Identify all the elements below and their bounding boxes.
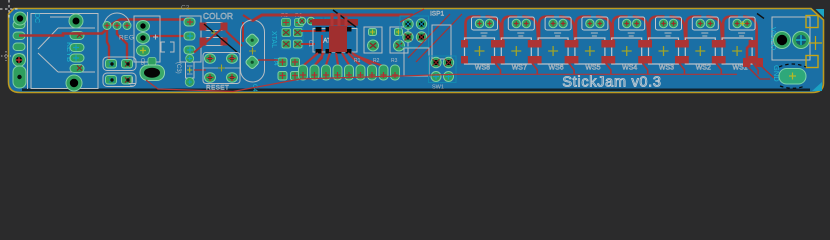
switch SW1 pad 1 — [431, 57, 441, 67]
regulator pad 2 — [113, 22, 121, 30]
svg-text:R1: R1 — [354, 58, 361, 64]
RESET pad A — [205, 54, 216, 64]
ISP1 pad 3 — [403, 32, 413, 42]
svg-text:R4: R4 — [272, 58, 278, 66]
wire to gnd pad — [747, 66, 770, 79]
regulator pad 1 — [103, 22, 111, 30]
capacitor C1 outline — [364, 27, 382, 53]
switch SW1 pad 3 — [431, 72, 441, 82]
tall stadium pad bottom-left — [13, 66, 26, 88]
dimension cross mid — [809, 36, 822, 50]
svg-text:ISP1: ISP1 — [430, 11, 444, 18]
wire into button — [194, 29, 222, 53]
svg-text:WS6: WS6 — [549, 65, 564, 72]
USB pin pad 4 — [70, 65, 84, 73]
svg-text:C2: C2 — [181, 5, 190, 12]
crystal pad 2 — [245, 55, 260, 70]
svg-text:SW1: SW1 — [432, 85, 444, 91]
wire WS1 pad down — [747, 44, 751, 58]
LED WS2 — [682, 17, 722, 75]
silscreen diagonal — [204, 24, 238, 53]
origin crosshair — [0, 0, 19, 19]
through-hole pad USB shield top — [69, 14, 83, 28]
resistor R2 — [206, 38, 222, 46]
capacitor C3 holder silkscreen — [134, 16, 160, 62]
wire diagonal across ISP — [400, 9, 424, 22]
switch SW1 pad 2 — [443, 57, 453, 67]
transistor/regulator Q1 silkscreen arc — [104, 13, 130, 26]
S2 pad A — [106, 60, 117, 69]
pour isolation gap bottom — [22, 89, 810, 92]
svg-text:C1: C1 — [307, 40, 313, 47]
X2 pad 3 — [184, 46, 195, 54]
board copper pour (bottom layer blue) — [9, 9, 823, 92]
ground symbol — [129, 77, 136, 86]
X2 pad 2 — [184, 32, 195, 40]
dimension square bottom — [806, 56, 818, 68]
header pad crosses — [300, 72, 398, 78]
USB pin pad 3 — [70, 54, 84, 62]
svg-text:C6: C6 — [139, 58, 145, 65]
USB pin pad 2 — [70, 44, 84, 52]
RCA pad shield — [793, 32, 810, 49]
RESET pad D — [227, 73, 238, 83]
wire regulator output down — [107, 26, 127, 59]
LED WS4 — [608, 17, 648, 75]
wire VBUS from edge pads to regulator — [19, 20, 187, 36]
corner marker bottom-right — [812, 82, 822, 91]
silkscreen slash — [757, 14, 764, 19]
red pad V2 — [756, 58, 764, 67]
corner marker top-right — [816, 9, 825, 18]
C3 pad 1 — [137, 21, 150, 32]
button center mark — [218, 65, 225, 72]
svg-text:DC: DC — [33, 13, 40, 23]
D1 pad bottom — [185, 78, 194, 87]
wire xtal to R4 — [258, 59, 278, 61]
wire thick stub — [312, 19, 358, 26]
net wire bottom thin — [146, 74, 737, 91]
LED WS1 — [719, 17, 759, 75]
via pair top — [298, 17, 306, 25]
LED WS8 — [461, 17, 501, 75]
wire to video pad — [759, 64, 774, 78]
pad column J2 pin 4 — [13, 54, 25, 62]
svg-text:XTAL: XTAL — [270, 31, 277, 48]
resistor R3 pad 2 — [291, 58, 300, 67]
C3 pad 2 — [137, 33, 150, 44]
svg-text:StickJam v0.3: StickJam v0.3 — [562, 75, 661, 91]
connector X5 video outline — [772, 17, 810, 60]
GND stadium pad — [779, 69, 806, 85]
switch SW1 pad 4 — [444, 72, 454, 82]
pad column J2 pin 3 — [13, 43, 25, 51]
connector X2 silkscreen — [180, 16, 201, 62]
power pad with hole — [140, 65, 165, 81]
U1 pins top — [316, 27, 352, 54]
through-hole pad USB shield bottom — [66, 75, 82, 91]
wire from R6 to U1 — [301, 31, 326, 66]
ISP1 pad 1 — [403, 19, 413, 29]
svg-text:WS5: WS5 — [585, 65, 600, 72]
olive mark unit8 — [740, 21, 744, 25]
LED WS3 — [645, 17, 685, 75]
LED WS5 — [571, 17, 611, 75]
component X5 outline — [404, 48, 429, 76]
D1 pad top — [186, 55, 194, 63]
RESET pad C — [205, 73, 216, 83]
wire fan to header — [304, 53, 383, 66]
LED WS6 — [535, 17, 575, 75]
crystal pad 1 — [245, 33, 260, 48]
svg-text:WS4: WS4 — [622, 65, 637, 72]
svg-text:WS7: WS7 — [512, 65, 527, 72]
red pad V1 — [743, 58, 751, 67]
ISP1 pad 4 — [416, 32, 426, 42]
pad column J2 pin 2 — [13, 32, 25, 40]
through-hole pad top-left — [14, 12, 27, 25]
svg-text:WS8: WS8 — [475, 65, 490, 72]
S2 pad B — [122, 60, 133, 69]
resistor R4 pad 2 — [291, 72, 300, 81]
svg-text:(C3): (C3) — [175, 62, 181, 74]
through-hole pad left-mid — [13, 54, 26, 67]
capacitor C2 outline — [390, 27, 408, 53]
switch SW1 outline — [429, 56, 457, 83]
S2 pad D — [122, 76, 133, 85]
crystal center mark — [249, 48, 256, 55]
svg-text:REG: REG — [119, 35, 134, 42]
silkscreen slash over bus — [333, 10, 356, 27]
header JP1 pads — [299, 65, 400, 80]
LED WS7 — [498, 17, 538, 75]
RESET pad B — [227, 54, 238, 64]
wire MCU power verticals — [332, 13, 346, 28]
pad above black pad — [148, 58, 156, 66]
pad column J2 pin 1 — [13, 21, 25, 29]
pushbutton RESET body — [203, 53, 240, 84]
svg-text:R3: R3 — [391, 58, 398, 64]
pushbutton S2 body row1 — [103, 57, 136, 71]
mini origin mark — [1, 51, 11, 61]
svg-text:COLOR: COLOR — [203, 12, 233, 21]
resistor R4 pad 1 — [278, 72, 287, 81]
resistor R6 vertical — [293, 27, 303, 49]
RCA pad center — [774, 32, 791, 49]
S2 pad C — [106, 76, 117, 85]
X2 pad 1 — [184, 18, 195, 26]
ISP1 outline — [400, 16, 429, 47]
olive plus — [211, 30, 217, 36]
connector J1 (USB) silkscreen — [28, 12, 99, 89]
component X4 outline — [432, 25, 451, 59]
IC U1 ATTINY outline — [313, 29, 357, 53]
svg-text:R2: R2 — [373, 58, 380, 64]
pushbutton S2 body row2 — [103, 73, 136, 87]
ISP1 pad 2 — [416, 19, 426, 29]
regulator pad 3 — [123, 22, 131, 30]
crystal Q2 outline — [241, 20, 265, 82]
svg-text:WS2: WS2 — [696, 65, 711, 72]
resistor R1 — [206, 23, 222, 31]
wire VCC bus top — [252, 15, 413, 21]
wire D1 right — [194, 69, 206, 71]
board outline (dimension layer) — [9, 9, 824, 93]
small pads near vias — [316, 18, 322, 24]
resistor R5 vertical — [281, 27, 291, 49]
resistor R3 pad 1 — [278, 58, 287, 67]
dimension square top — [806, 16, 818, 28]
svg-text:WS3: WS3 — [659, 65, 674, 72]
plus marks — [153, 35, 158, 40]
keepout dashed arcs — [779, 64, 806, 67]
bracket glyphs C4 — [161, 42, 174, 52]
C3 pad 3 — [137, 45, 150, 56]
diode D1 outline — [186, 62, 195, 78]
USB pin pad 1 — [70, 32, 84, 40]
wire GND branch — [150, 35, 187, 37]
